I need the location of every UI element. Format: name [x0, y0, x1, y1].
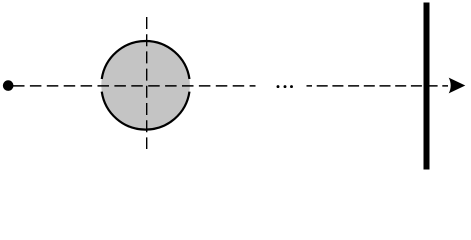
horizontal dashed axis (right segment: ellipsis to arrow) [307, 85, 449, 87]
point source dot [3, 80, 14, 91]
axis arrowhead [449, 78, 466, 94]
screen (thick vertical bar) [424, 3, 430, 170]
horizontal dashed axis (left segment: source to ellipsis) [13, 85, 256, 87]
vertical dashed axis through sphere [146, 17, 148, 149]
ellipsis dot 1 [277, 85, 280, 88]
sphere outline top arc (gap at left and right where axis crosses) [102, 41, 190, 79]
ellipsis dot 2 [284, 85, 287, 88]
sphere outline bottom arc [102, 92, 190, 130]
sphere fill (gray circle) [101, 41, 190, 130]
ellipsis dot 3 [290, 85, 293, 88]
